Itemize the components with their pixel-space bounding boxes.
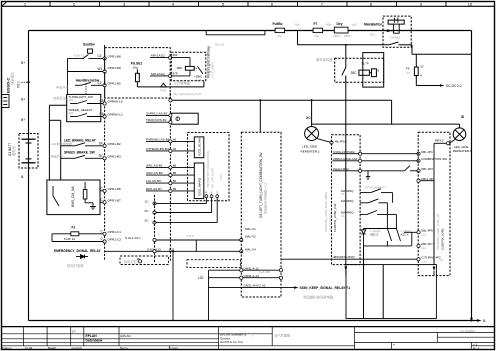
title block [2,327,495,350]
svg-text:OPR1-B2: OPR1-B2 [108,142,122,146]
svg-text:CAHBS: CAHBS [390,36,400,40]
svg-text:S.AL1-X2.1: S.AL1-X2.1 [125,236,141,240]
switch contact of K2 [389,42,399,45]
fuse Fu5Bc on bus [273,22,285,38]
svg-text:B+: B+ [21,98,25,102]
svg-text:6bc: 6bc [295,23,300,27]
ground reference box [146,113,198,124]
svg-text:5 MF 10: 5 MF 10 [64,237,75,241]
svg-text:Datum: Datum [3,346,13,350]
svg-text:B3: B3 [173,187,177,191]
svg-text:OPR6A-L2: OPR6A-L2 [108,113,123,117]
svg-text:Ma: Ma [278,34,282,38]
harness box X202 (dashed) [188,133,230,201]
svg-text:AMBULANCE.AS2: AMBULANCE.AS2 [333,157,358,161]
relay coil K3 [359,70,370,75]
svg-text:MA.4P4Q: MA.4P4Q [341,199,354,203]
svg-text:SW2.AS-B3: SW2.AS-B3 [146,171,163,175]
svg-text:OPR1-B3: OPR1-B3 [108,155,122,159]
svg-text:B-: B- [21,175,24,179]
svg-text:OM31-A.12: OM31-A.12 [244,266,260,270]
wire: left battery rail [28,31,30,321]
svg-text:MAL-X4: MAL-X4 [245,248,256,252]
svg-text:COOERS_LGB2_OW2_4BBA: COOERS_LGB2_OW2_4BBA [324,192,328,232]
svg-text:A02: A02 [69,111,75,115]
svg-text:C22BTW_LOB2: C22BTW_LOB2 [441,228,445,250]
svg-text:B-: B- [483,319,486,323]
harness box G (dashed) [418,132,450,275]
svg-text:4/2 TT22/P2/2Q: 4/2 TT22/P2/2Q [329,210,333,232]
svg-text:MAL-X2: MAL-X2 [245,235,256,239]
switch contact of K5 [198,66,204,74]
svg-text:SPEED_BRAKE_SW: SPEED_BRAKE_SW [64,151,95,155]
svg-text:限速开关: 限速开关 [51,153,63,158]
connector pin labels [108,55,123,242]
wire: signal pair to module M [105,240,241,321]
svg-text:ud2: ud2 [352,23,357,27]
connector column X2 dashed line [169,93,171,262]
svg-text:REPEATER.4: REPEATER.4 [453,149,472,153]
svg-text:转向组合灯控制器 4-C2: 转向组合灯控制器 4-C2 [263,182,268,214]
svg-text:By night all day 5-01: By night all day 5-01 [174,92,202,96]
svg-text:RR2.AS-B7: RR2.AS-B7 [146,187,162,191]
svg-text:=: = [393,343,395,347]
svg-text:蓄电池: 蓄电池 [11,145,16,156]
relay assembly solid box [363,53,384,88]
svg-text:XC: XC [306,116,311,120]
svg-text:GmbH & Co. KG: GmbH & Co. KG [220,340,243,344]
svg-text:PARKING.AS-B6: PARKING.AS-B6 [146,138,170,142]
svg-text:BB/?!: BB/?! [334,34,342,38]
svg-text:32: 32 [420,65,424,69]
svg-text:Datenbank: Datenbank [86,339,103,343]
switch HandBremsSw [56,79,105,95]
svg-text:Ma: Ma [315,34,319,38]
svg-text:N2c 16: N2c 16 [215,43,225,47]
wire: vertical feed through buzzer relay [345,45,347,265]
svg-text:B4: B4 [173,179,177,183]
svg-text:TRAFO.RS-B2: TRAFO.RS-B2 [146,118,167,122]
svg-text:小灯继电器: 小灯继电器 [174,81,191,86]
diode in K3 [372,69,377,77]
svg-text:B6: B6 [173,163,177,167]
zone reference band [2,2,495,7]
svg-text:L.2: L.2 [197,78,202,82]
svg-text:C2: C2 [98,81,102,85]
svg-text:A2B17.1: A2B17.1 [74,54,85,58]
svg-text:X202_MAIN2: X202_MAIN2 [198,177,202,196]
svg-text:OPR1-B8: OPR1-B8 [108,55,122,59]
svg-text:B+: B+ [21,61,25,65]
svg-text:SIGN_KEEP_SIGNAL_RELAY ?1: SIGN_KEEP_SIGNAL_RELAY ?1 [300,286,351,290]
relay K2 horn relay (dashed box) [383,16,411,47]
svg-text:EPLAN: EPLAN [86,334,98,338]
wire: lamp X2 feed [419,139,456,180]
svg-text:1?: 1? [72,329,76,333]
svg-text:5/1 LEFT_TURN_LIGHT_COMBINATIO: 5/1 LEFT_TURN_LIGHT_COMBINATION_2W [259,153,263,218]
svg-text:KJ 1838B1: KJ 1838B1 [460,329,475,333]
svg-text:手刹开关: 手刹开关 [56,85,68,90]
svg-text:6Ba: 6Ba [326,23,332,27]
node SIGN_KEEP_SIGNAL_RELAY arrow [294,286,299,289]
switch SeatSw [68,43,105,95]
svg-text:LIG.AS-B5: LIG.AS-B5 [146,179,161,183]
wire: bottom B- bus [29,320,478,322]
svg-text:EMERGENCY_SIGNAL_RELAY: EMERGENCY_SIGNAL_RELAY [54,249,102,253]
connector circles column X1 [103,57,106,243]
wire: relay feeds [150,58,190,76]
connector column X1 dashed line [104,45,106,260]
connector block X202A [146,137,204,158]
node arrows into ECU [344,267,347,272]
svg-text:DF: DF [99,141,103,145]
svg-text:MainBatVol: MainBatVol [364,23,382,27]
svg-text:转向灯电源: 转向灯电源 [67,263,84,268]
svg-text:OPR1-C2: OPR1-C2 [108,238,122,242]
relay coil K5 [185,66,194,70]
svg-text:4-C2: 4-C2 [219,173,223,180]
svg-text:TM2: TM2 [160,88,166,92]
wire: dotted stub to rail [22,81,29,83]
wire: DC-DC feed [412,54,472,85]
wires out of BMS box [100,190,105,192]
svg-text:SUPPLY.AS-B2: SUPPLY.AS-B2 [146,111,168,115]
connector block X202B [146,163,204,199]
wire: main feed to lamps [170,100,459,132]
svg-text:Norm: Norm [120,346,128,350]
svg-text:OM31-A.14: OM31-A.14 [244,274,260,278]
lamp X2 side repeater right [453,128,466,141]
svg-text:A2C.4: A2C.4 [401,233,409,237]
svg-text:转向灯信号: 转向灯信号 [124,259,140,264]
svg-text:OTHERS.BS-B4: OTHERS.BS-B4 [146,147,169,151]
svg-text:LED制动继电器: LED制动继电器 [51,141,72,146]
wire: ignition feed from bus [298,31,413,55]
svg-text:4-1 COMES: 4-1 COMES [211,62,215,78]
svg-text:10a: 10a [133,65,138,69]
svg-text:LED_SIDE: LED_SIDE [302,145,317,149]
svg-text:12a: 12a [341,192,346,196]
harness box F (dashed) [332,135,361,265]
svg-text:12a: 12a [422,260,427,264]
fuse FU.SE1 [131,62,204,87]
switch box S2 (special switches) [67,94,105,121]
svg-text:ATTACHMENT?: ATTACHMENT? [365,186,386,190]
fuse F7 on bus [313,22,323,38]
switch SPEED_BRAKE [51,151,105,159]
main power rails [29,31,478,321]
switch LED_BRAKE_RELAY [51,138,105,146]
svg-text:OPR1-B6: OPR1-B6 [108,187,122,191]
svg-text:A5: A5 [173,147,177,151]
svg-text:12a: 12a [341,214,346,218]
svg-text:A6: A6 [173,137,177,141]
svg-text:X202_RLAM: X202_RLAM [198,138,202,156]
svg-text:电气原理图: 电气原理图 [275,332,290,337]
diode D1 [361,229,365,246]
svg-text:MR-1A2Q: MR-1A2Q [151,72,165,76]
title block text [3,329,480,351]
svg-text:12.04: 12.04 [25,346,33,350]
fuse F1 [52,225,105,241]
svg-text:OM31.ANYG.A2: OM31.ANYG.A2 [244,284,266,288]
svg-text:MP4.2: MP4.2 [435,138,444,142]
relay Dey on bus [334,22,353,38]
svg-text:C1: C1 [98,54,102,58]
svg-text:S.M1-X10: S.M1-X10 [147,247,161,251]
svg-text:BMS_CM_NA: BMS_CM_NA [71,186,75,207]
svg-text:2a: 2a [440,258,444,262]
node B- arrow right [477,319,482,322]
svg-text:KgA 4B1: KgA 4B1 [259,270,271,274]
svg-text:倒车蜂鸣器: 倒车蜂鸣器 [316,57,333,62]
relay K5 small lamp relay (dashed enclosure) [171,52,206,81]
ECU box bottom right [346,265,436,319]
node connector circles on box edge [169,56,172,59]
svg-text:W1: W1 [98,67,103,71]
svg-text:28C: 28C [351,71,358,75]
node DC-DC arrow [440,84,445,87]
wire: right return rail [471,31,473,321]
wire: fuse output to relay [137,86,204,88]
svg-text:30F: 30F [173,53,178,57]
wire: feed to switch box [49,105,66,180]
svg-text:4BTURNS.4P2Q: 4BTURNS.4P2Q [333,255,355,259]
harness box (dashed) around fuse FU.SE1 [105,48,171,98]
svg-text:B+: B+ [21,118,25,122]
svg-text:Dey: Dey [337,22,343,26]
wire: bus detour link [206,31,265,35]
wire: lamp control drops with switches [360,189,396,229]
node junction on rail [27,81,29,83]
svg-text:L30: L30 [198,276,204,280]
svg-text:DC-DC 2-2: DC-DC 2-2 [446,84,462,88]
svg-text:A2C.2: A2C.2 [370,233,378,237]
svg-text:OBL.4P3: OBL.4P3 [421,167,433,171]
BMS control box U2 [47,180,105,215]
svg-text:B5: B5 [173,171,177,175]
svg-text:EPLAN: EPLAN [121,334,131,338]
wire: top B+ bus [29,30,472,32]
svg-text:OPR1-B7: OPR1-B7 [108,199,122,203]
svg-text:SW1.AS-B1: SW1.AS-B1 [146,164,163,168]
svg-text:OF LAP SLOP: OF LAP SLOP [211,168,215,188]
svg-text:Fu5Bc: Fu5Bc [273,22,283,26]
svg-text:4: 4 [486,325,488,329]
node T-connector on wire [161,83,166,87]
svg-text:OPR1-B9: OPR1-B9 [108,66,122,70]
svg-text:MAL-X1: MAL-X1 [245,227,256,231]
switch contact in K3 [342,68,346,76]
node arrow down on right rail [470,318,473,323]
battery G1 [8,134,38,169]
svg-text:OPR1-C1: OPR1-C1 [108,230,122,234]
svg-text:4BL.4P1Q: 4BL.4P1Q [335,139,347,143]
svg-text:X0:1: X0:1 [17,81,21,88]
svg-text:2BC: 2BC [177,66,184,70]
svg-text:专用开关: 专用开关 [53,96,67,101]
svg-text:OBL.4P1: OBL.4P1 [421,150,433,154]
svg-text:OPR1-B5: OPR1-B5 [108,82,122,86]
lamp X1 side repeater [305,127,332,143]
svg-text:TM SWITCH OPERA TOW: TM SWITCH OPERA TOW [206,151,210,188]
ground at repeater return [366,171,370,180]
svg-text:线束插头: 线束插头 [10,71,15,85]
svg-text:C22BTW_LOB2_OW: C22BTW_LOB2_OW [333,203,337,232]
svg-text:8: 8 [378,69,380,73]
svg-text:10: 10 [468,1,473,6]
svg-text:B21: B21 [370,32,376,36]
svg-text:Urspr.: Urspr. [171,346,179,350]
switch contacts lamp select [387,229,400,246]
harness stubs bottom left [120,256,240,268]
svg-text:COOERS_LGB2_OW2_4B: COOERS_LGB2_OW2_4B [436,214,440,250]
svg-text:F1: F1 [72,225,76,229]
svg-text:REPEATER.2: REPEATER.2 [301,150,320,154]
svg-text:Ua: Ua [406,71,410,75]
svg-text:Bearb.: Bearb. [48,346,57,350]
wire: to turn connectors [281,181,434,319]
resistor R in box [83,190,87,200]
svg-text:A01: A01 [69,98,75,102]
svg-text:SeatSw: SeatSw [83,43,95,47]
svg-text:HandBremsSw: HandBremsSw [76,79,100,83]
svg-text:12a: 12a [421,246,426,250]
wire: repeater harness wires [333,154,419,171]
svg-text:C333+14V.PAD2: C333+14V.PAD2 [333,150,355,154]
svg-text:71 7F: 71 7F [361,62,369,66]
module box M (dashed) [241,132,281,297]
svg-text:Geprüft: Geprüft [72,346,82,350]
svg-text:OB17: OB17 [344,34,352,38]
svg-text:MR-1A1Q: MR-1A1Q [151,54,165,58]
svg-text:12a: 12a [421,232,426,236]
connector X0 at sheet edge [2,95,10,108]
svg-text:PauG1 MA2: PauG1 MA2 [333,167,349,171]
zone numbers [24,1,473,6]
svg-text:F7: F7 [314,22,318,26]
svg-text:4 N R: 4 N R [186,234,195,238]
svg-text:制动喇叭信号继电器: 制动喇叭信号继电器 [304,294,334,299]
svg-text:87F: 87F [173,72,178,76]
svg-text:Bl. 4: Bl. 4 [473,346,479,350]
svg-text:OPR6A-L6: OPR6A-L6 [108,100,123,104]
wire: turn signal outputs [209,270,295,320]
